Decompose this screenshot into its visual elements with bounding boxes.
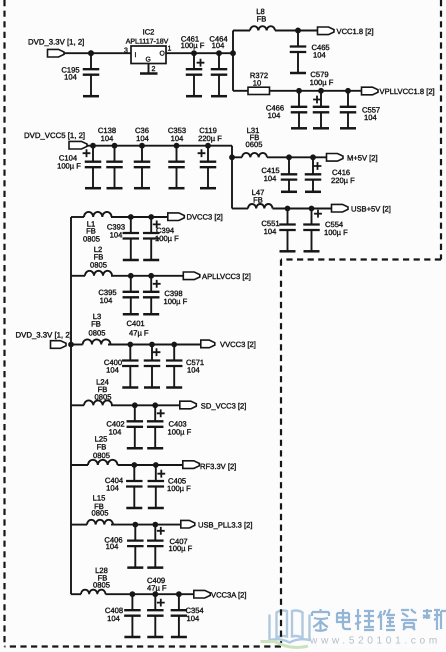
capacitor C354 [171,591,204,623]
svg-text:0805: 0805 [90,260,107,269]
node DVD_3.3V [1,2] source tag (bus) [16,330,72,348]
svg-text:100µ F: 100µ F [168,427,192,436]
svg-text:104: 104 [264,227,277,236]
svg-text:C401: C401 [127,319,145,328]
capacitor C466 [266,88,307,120]
wire [111,404,180,406]
wire [111,275,183,277]
svg-text:SD_VCC3 [2]: SD_VCC3 [2] [201,402,247,411]
svg-text:2: 2 [152,66,156,73]
capacitor C554 [303,206,348,237]
node APLLVCC3 output tag [183,272,251,281]
wire [232,31,234,91]
svg-text:104: 104 [187,365,200,374]
capacitor C395 [98,273,139,305]
node DVD_VCC5 [1,2] source tag [24,131,87,149]
ground [169,167,185,188]
node VCC1.8 output tag [318,27,374,36]
capacitor C409 [147,576,167,616]
watermark logo [270,609,446,647]
svg-text:www.520101.com: www.520101.com [309,636,441,647]
ground [166,366,182,388]
ground [313,112,329,128]
ground (IC2 pin 2) [140,64,158,74]
inductor L15 FB 0805 [71,494,113,525]
svg-text:104: 104 [364,113,377,122]
svg-text:0805: 0805 [93,581,110,590]
capacitor C571 [166,342,204,375]
svg-text:104: 104 [212,41,225,50]
svg-text:DVD_3.3V [1, 2]: DVD_3.3V [1, 2] [28,38,84,47]
svg-text:104: 104 [107,614,120,623]
svg-text:100µ F: 100µ F [164,297,188,306]
node VCC3A output tag [194,590,247,599]
ground [143,239,159,261]
wire [166,52,233,54]
svg-text:220µ F: 220µ F [198,134,222,143]
svg-text:RF3.3V [2]: RF3.3V [2] [200,462,236,471]
ground [280,230,296,251]
inductor L1 FB 0805 [71,212,112,244]
inductor L47 FB [232,188,273,209]
inductor L28 FB 0805 [71,566,110,594]
svg-text:APLLVCC3 [2]: APLLVCC3 [2] [202,272,251,281]
capacitor C398 [143,273,188,306]
svg-text:104: 104 [109,427,122,436]
svg-text:100µ F: 100µ F [181,41,205,50]
svg-text:0805: 0805 [83,235,100,244]
capacitor C406 [104,522,143,551]
capacitor C394 [143,214,179,243]
capacitor C393 [107,214,139,239]
svg-text:10: 10 [253,78,261,87]
node M+5V output tag [327,153,378,162]
capacitor C195 [61,50,99,81]
ground [340,112,356,128]
svg-text:100µ F: 100µ F [169,544,193,553]
ground [304,230,320,251]
svg-text:0805: 0805 [95,393,112,402]
svg-text:DVD_3.3V [1, 2]: DVD_3.3V [1, 2] [16,330,72,339]
svg-text:104: 104 [136,134,149,143]
svg-text:47µ F: 47µ F [147,583,167,592]
capacitor C408 [105,591,141,623]
svg-text:1: 1 [168,46,172,53]
svg-text:100µ F: 100µ F [310,78,334,87]
ground [126,487,142,509]
svg-text:DVCC3 [2]: DVCC3 [2] [187,212,223,221]
ground [147,427,163,449]
capacitor C104 [57,143,101,171]
wire [64,52,131,54]
capacitor C400 [104,342,139,375]
ground [148,487,164,509]
ground [147,616,163,637]
ground [85,167,101,188]
ground [281,180,297,192]
inductor L25 FB 0805 [71,435,117,465]
svg-text:APL1117-18V: APL1117-18V [126,39,169,46]
svg-text:104: 104 [313,50,326,59]
svg-text:104: 104 [106,365,119,374]
inductor L3 FB 0805 [71,312,111,345]
capacitor C461 [181,35,205,75]
ground [122,366,138,388]
capacitor C403 [147,402,192,436]
node VPLLVCC1.8 output tag [362,87,435,96]
capacitor C557 [340,88,380,122]
capacitor C119 [198,126,223,167]
capacitor C579 [310,70,334,112]
ground [134,167,150,188]
ground [305,180,321,192]
ground [144,366,160,388]
svg-text:104: 104 [187,614,200,623]
svg-text:104: 104 [100,296,113,305]
capacitor C401 [127,319,161,366]
svg-text:0805: 0805 [92,509,109,518]
node SD_VCC3 output tag [180,401,247,410]
svg-text:104: 104 [106,542,119,551]
svg-text:VVCC3 [2]: VVCC3 [2] [220,340,256,349]
inductor L8 FB [233,7,275,31]
svg-text:104: 104 [264,174,277,183]
svg-text:100µ F: 100µ F [324,228,348,237]
svg-text:VPLLVCC1.8 [2]: VPLLVCC1.8 [2] [380,87,435,96]
svg-text:100µ F: 100µ F [57,162,81,171]
svg-text:G: G [146,57,151,64]
capacitor C36 [134,126,151,167]
ground [186,75,202,97]
wire [108,344,201,346]
resistor R372 10 [233,71,270,95]
wire (DVD_3.3V bus) [70,217,72,594]
svg-text:100µ F: 100µ F [167,484,191,493]
node DVD_3.3V [1,2] source tag (top) [28,38,84,58]
wire [106,593,194,595]
svg-text:47µ F: 47µ F [129,329,149,338]
capacitor C551 [261,206,295,236]
capacitor C416 [305,154,355,185]
svg-text:220µ F: 220µ F [331,176,355,185]
svg-text:M+5V [2]: M+5V [2] [347,153,378,162]
wire [273,208,332,210]
svg-text:USB_PLL3.3 [2]: USB_PLL3.3 [2] [198,521,252,530]
ground [127,546,143,568]
svg-text:VCC1.8 [2]: VCC1.8 [2] [337,27,374,36]
node junction [229,154,235,160]
ground [123,297,139,314]
ground [127,427,143,449]
svg-text:104: 104 [268,111,281,120]
node USB+5V output tag [332,204,391,213]
wire [267,156,327,158]
inductor L24 FB 0805 [71,378,112,406]
ground [290,52,306,73]
wire [275,30,318,32]
wire [87,145,232,147]
ground [291,112,307,128]
svg-text:3: 3 [124,48,128,55]
svg-text:FB: FB [257,14,267,23]
node junction [230,50,236,56]
svg-text:0605: 0605 [246,140,263,149]
ground [147,546,163,568]
svg-text:0805: 0805 [89,329,106,338]
node RF3.3V output tag [183,461,236,471]
node junction [68,342,74,348]
capacitor C404 [105,462,143,492]
inductor L2 FB 0805 [71,245,112,276]
capacitor C405 [148,462,192,493]
capacitor C415 [261,154,297,182]
capacitor C138 [98,126,123,167]
node junction [295,28,301,34]
svg-text:0805: 0805 [93,451,110,460]
ground [123,239,139,261]
svg-text:USB+5V [2]: USB+5V [2] [351,205,391,214]
node VVCC3 output tag [201,340,256,349]
ground [83,75,99,97]
capacitor C464 [209,35,227,75]
ground [107,167,123,188]
svg-text:FB: FB [253,195,263,204]
wire [270,90,362,92]
ground [171,616,187,637]
svg-text:I: I [135,52,137,59]
regulator IC2 APL1117-18V [126,28,169,64]
capacitor C465 [290,28,330,60]
svg-text:VCC3A [2]: VCC3A [2] [211,590,246,599]
svg-text:O: O [160,51,165,58]
wire [111,216,168,218]
inductor L31 FB 0605 [232,126,267,157]
ground [200,167,216,188]
wire [118,464,183,466]
node USB_PLL3.3 output tag [181,520,253,529]
ground [143,297,159,314]
svg-text:104: 104 [171,134,184,143]
svg-text:104: 104 [64,73,77,82]
ground [211,75,227,97]
svg-text:IC2: IC2 [143,28,155,37]
node junction [88,50,94,56]
svg-text:FB: FB [91,320,101,329]
svg-text:104: 104 [101,134,114,143]
ground [124,616,140,637]
wire [111,524,181,526]
svg-text:104: 104 [106,483,119,492]
capacitor C407 [147,522,193,553]
node DVCC3 output tag [168,212,223,221]
svg-text:DVD_VCC5 [1, 2]: DVD_VCC5 [1, 2] [24,131,85,140]
capacitor C353 [168,126,186,167]
capacitor C402 [106,402,143,436]
svg-text:104: 104 [110,230,123,239]
wire [231,146,233,209]
